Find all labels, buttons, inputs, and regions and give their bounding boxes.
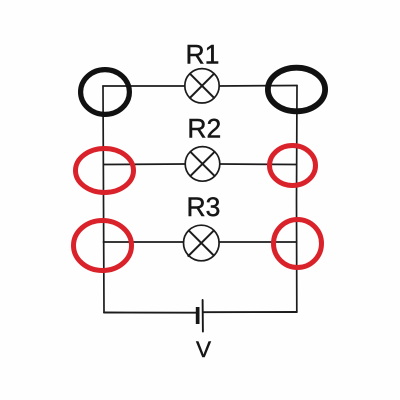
svg-text:V: V: [196, 337, 211, 362]
node marker: black ellipse at top-right junction: [268, 68, 325, 112]
svg-text:R2: R2: [187, 114, 221, 144]
wire: third branch (R3) left segment: [104, 241, 184, 243]
node marker: red ellipse at middle-right junction: [270, 146, 316, 186]
wire: third branch (R3) right segment: [219, 241, 296, 243]
battery V symbol: short thick negative plate: [196, 307, 200, 324]
svg-text:R1: R1: [186, 40, 220, 70]
node marker: red ellipse at middle-left junction: [76, 149, 134, 193]
node marker: black ellipse at top-left junction: [81, 70, 130, 115]
wire: left vertical rail: [103, 86, 104, 313]
wire: right vertical rail: [296, 86, 299, 313]
lamp/resistor R3 symbol: [184, 225, 220, 261]
lamp/resistor R2 symbol: [185, 147, 220, 182]
wire: top branch left segment: [103, 85, 185, 87]
wire: bottom rail left segment: [104, 312, 196, 314]
wire: top branch right segment: [219, 85, 297, 88]
wire: middle branch (R2) left segment: [104, 163, 186, 166]
svg-text:R3: R3: [187, 192, 221, 222]
lamp/resistor R1 symbol: [185, 69, 219, 103]
node marker: red circle at lower-right junction: [274, 220, 322, 268]
wire: middle branch (R2) right segment: [220, 163, 297, 166]
battery V symbol: long thin positive plate: [202, 300, 204, 332]
wire: bottom rail right segment: [204, 311, 297, 313]
node marker: red ellipse at lower-left junction: [74, 221, 132, 271]
